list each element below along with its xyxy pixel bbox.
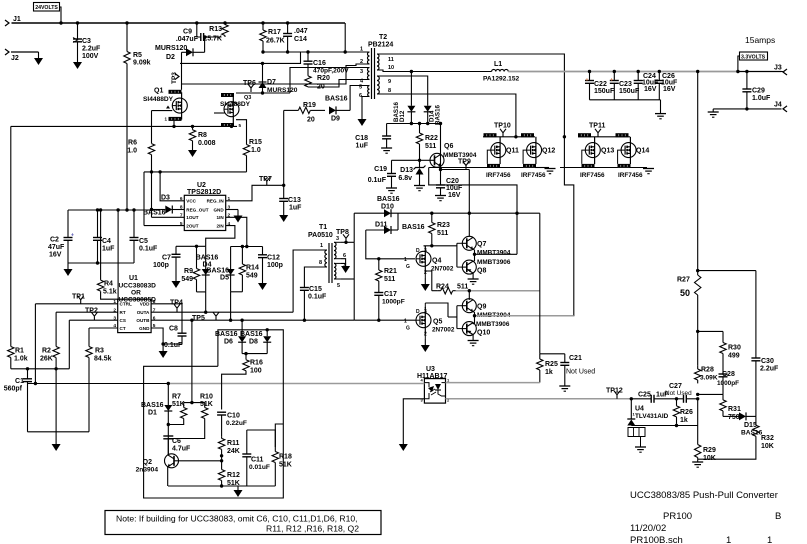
svg-text:Q7: Q7 <box>477 241 486 248</box>
svg-text:1uF: 1uF <box>289 205 302 212</box>
ground Q14 source <box>643 169 654 174</box>
resistor R20 <box>305 75 330 91</box>
wire Q9/Q10 emitter junction <box>473 311 574 324</box>
wire pin11 to Q13/Q14 drain <box>385 54 564 137</box>
transistor Q9 MMBT3904 <box>462 299 511 319</box>
wire C12 net <box>231 245 263 248</box>
svg-text:R13: R13 <box>209 26 222 33</box>
resistor R2 <box>40 312 59 362</box>
wire CS drop <box>68 320 70 369</box>
svg-text:47uF: 47uF <box>48 244 65 251</box>
diode D5 BAS16 <box>206 247 234 292</box>
wire U2 2OUT <box>144 225 184 227</box>
wire rail drop to R27 <box>697 72 699 271</box>
capacitor C13 <box>279 184 302 212</box>
wire D2 node <box>203 35 206 52</box>
svg-text:5.1k: 5.1k <box>103 289 117 296</box>
wire D10 col drop <box>353 213 355 320</box>
ground left bus <box>52 432 61 451</box>
svg-text:R32: R32 <box>761 435 774 442</box>
svg-text:51K: 51K <box>279 462 292 469</box>
svg-text:D2: D2 <box>166 54 175 61</box>
svg-text:R6: R6 <box>128 140 137 147</box>
svg-text:J3: J3 <box>774 65 782 72</box>
transistor Q8 MMBT3906 <box>462 259 511 275</box>
svg-text:R10: R10 <box>200 394 213 401</box>
svg-text:51K: 51K <box>172 401 185 408</box>
svg-text:C10: C10 <box>227 413 240 420</box>
svg-text:C9: C9 <box>183 29 192 36</box>
svg-text:L1: L1 <box>494 61 502 68</box>
wire VDD drop to U1 <box>117 210 119 299</box>
capacitor C9 <box>176 29 222 44</box>
svg-text:1000pF: 1000pF <box>717 380 739 387</box>
testpoint TP7 <box>259 176 272 185</box>
svg-text:150uF: 150uF <box>594 88 615 95</box>
svg-text:D6: D6 <box>224 339 233 346</box>
svg-text:C6: C6 <box>172 438 181 445</box>
wire U1 GND pin5 <box>151 328 165 346</box>
wire U2 1OUT <box>152 216 185 218</box>
svg-text:BAS16: BAS16 <box>377 196 400 203</box>
resistor R4 <box>97 208 118 302</box>
wire ring top <box>144 330 284 498</box>
wire R2 bottom ground bus <box>28 358 90 432</box>
capacitor C10 <box>217 412 247 437</box>
diode D8 BAS16 <box>240 328 271 354</box>
capacitor C20 <box>436 178 463 199</box>
svg-text:1: 1 <box>228 196 231 202</box>
svg-text:R27: R27 <box>677 277 690 284</box>
connector J1 <box>5 16 21 26</box>
node 24VOLTS flag <box>34 3 62 24</box>
svg-text:U1: U1 <box>129 275 138 282</box>
svg-text:R18: R18 <box>279 454 292 461</box>
svg-text:C11: C11 <box>251 457 264 464</box>
capacitor C12 <box>258 247 283 278</box>
svg-text:J1: J1 <box>13 16 21 23</box>
ground U1 <box>159 345 168 358</box>
svg-text:R24: R24 <box>436 284 449 291</box>
svg-text:C29: C29 <box>752 88 765 95</box>
svg-text:RT: RT <box>120 310 126 315</box>
wire Q13-Q14 drain row <box>563 135 630 138</box>
wire Q10 collector ground <box>468 335 479 346</box>
wire snubber2 bottom <box>261 41 301 54</box>
svg-text:C12: C12 <box>267 255 280 262</box>
svg-text:PB2124: PB2124 <box>368 42 393 49</box>
svg-text:G: G <box>406 326 410 332</box>
svg-text:D: D <box>416 309 420 315</box>
diode D13 zener 6.8v <box>398 160 425 185</box>
svg-text:1: 1 <box>726 535 731 544</box>
ground R29 <box>692 459 703 467</box>
resistor R13 <box>203 23 228 43</box>
svg-text:Q1: Q1 <box>154 88 163 95</box>
wire Q8 collector ground <box>468 273 479 284</box>
svg-text:1.0uF: 1.0uF <box>752 95 771 102</box>
ground opto <box>399 438 408 451</box>
transistor Q10 MMBT3906 <box>462 321 510 337</box>
resistor R31 <box>720 394 741 421</box>
ground J2 <box>34 52 43 65</box>
svg-text:10uF: 10uF <box>446 185 463 192</box>
wire T2 pin6 ground <box>362 97 370 114</box>
resistor R23 <box>429 213 450 237</box>
wire D5/R14 bottom <box>231 276 243 321</box>
transistor Q12 IRF7456 <box>521 133 555 179</box>
resistor R5 <box>124 23 151 67</box>
wire Q1 drain <box>181 52 183 90</box>
ground C18 <box>381 148 392 153</box>
svg-text:CT: CT <box>120 326 126 331</box>
wire 1OUT column <box>151 111 153 218</box>
svg-text:C16: C16 <box>313 60 326 67</box>
svg-text:R16: R16 <box>250 360 263 367</box>
svg-text:470pF,200V: 470pF,200V <box>313 68 349 75</box>
wire Q7/Q8 emitter junction <box>473 249 517 262</box>
svg-text:150uF: 150uF <box>619 88 640 95</box>
svg-text:0.1uF: 0.1uF <box>139 246 158 253</box>
resistor R1 <box>8 126 28 362</box>
wire Q11-Q12 drain row <box>483 135 535 138</box>
svg-text:D13: D13 <box>400 167 413 174</box>
diode D9 BAS16 <box>325 96 350 123</box>
svg-text:T2: T2 <box>379 34 387 41</box>
svg-text:TLV431AID: TLV431AID <box>635 413 669 420</box>
transistor Q6 MMBT3904 <box>430 143 477 167</box>
diode D11 BAS16 <box>366 222 425 235</box>
ground C7 <box>172 275 181 288</box>
svg-text:24VOLTS: 24VOLTS <box>35 5 58 11</box>
wire R23 bottom / base bus <box>424 235 457 248</box>
resistor R30 <box>720 339 741 360</box>
wire R20 to T2 pin4 <box>308 80 362 88</box>
svg-text:CS: CS <box>120 318 126 323</box>
wire T1 pin3 to D10 row <box>341 241 354 244</box>
wire U1 pin4 CT <box>89 327 118 329</box>
svg-text:IRF7456: IRF7456 <box>580 172 605 179</box>
testpoint TP6 <box>243 80 256 101</box>
capacitor C19 <box>368 160 420 188</box>
svg-text:2n3904: 2n3904 <box>136 467 159 474</box>
svg-text:Not Used: Not Used <box>665 390 692 397</box>
svg-text:511: 511 <box>425 143 436 150</box>
svg-text:0.01uF: 0.01uF <box>249 464 270 471</box>
svg-text:PR100: PR100 <box>663 511 692 522</box>
svg-text:2.2uF: 2.2uF <box>82 46 101 53</box>
ground output caps <box>655 114 666 119</box>
testpoint TP3 <box>171 72 179 84</box>
ground U2 <box>234 210 243 223</box>
svg-text:R17: R17 <box>268 29 281 36</box>
wire D6/D8 bottoms <box>242 352 267 355</box>
svg-text:100p: 100p <box>153 262 169 269</box>
svg-text:C13: C13 <box>288 197 301 204</box>
svg-text:C5: C5 <box>139 238 148 245</box>
svg-text:10: 10 <box>388 65 394 71</box>
wire J1 24V rail <box>12 21 346 24</box>
wire drive rail to T2 pin1 <box>302 23 347 54</box>
wire Q9 collector <box>468 289 471 300</box>
capacitor C17 <box>374 283 404 320</box>
svg-text:OUTA: OUTA <box>137 310 150 315</box>
capacitor C26 <box>655 72 678 100</box>
shunt regulator U4 TLV431AID <box>627 399 668 447</box>
svg-text:D11: D11 <box>375 222 388 229</box>
svg-text:3: 3 <box>424 248 427 254</box>
svg-text:499: 499 <box>728 353 740 360</box>
wire D9 to T2 pin5 <box>350 86 362 111</box>
wire R27 branch <box>696 269 756 272</box>
capacitor C2 <box>48 210 74 263</box>
resistor R18 <box>272 424 292 469</box>
testpoint TP2 <box>85 308 98 321</box>
svg-text:C21: C21 <box>569 355 582 362</box>
svg-text:C23: C23 <box>619 81 632 88</box>
svg-text:BAS16: BAS16 <box>402 224 425 231</box>
svg-text:3: 3 <box>424 309 427 315</box>
wire T1 pin6/4 ground <box>341 259 350 273</box>
svg-text:C18: C18 <box>355 135 368 142</box>
svg-text:B: B <box>775 511 781 522</box>
svg-text:TP5: TP5 <box>192 315 205 322</box>
capacitor C5 <box>130 210 159 263</box>
svg-text:C25: C25 <box>638 392 651 399</box>
resistor R15 <box>243 139 262 156</box>
resistor R6 <box>127 140 154 155</box>
svg-text:Q14: Q14 <box>636 148 649 155</box>
svg-text:0.1uF: 0.1uF <box>164 342 183 349</box>
svg-text:IRF7456: IRF7456 <box>618 172 643 179</box>
svg-text:C2: C2 <box>50 237 59 244</box>
svg-text:24K: 24K <box>227 448 240 455</box>
resistor R22 <box>416 124 438 151</box>
capacitor C4 <box>93 210 115 263</box>
wire T1 pin1 OUTA <box>293 250 320 312</box>
svg-text:1k: 1k <box>680 417 688 424</box>
wire D2-C16 upper net <box>180 52 301 65</box>
capacitor C18 <box>355 124 391 150</box>
resistor R32 <box>753 416 774 450</box>
node 3.3VOLTS flag <box>738 52 768 72</box>
capacitor C29 <box>742 72 771 109</box>
wire U1 pin3 CS <box>69 319 117 321</box>
svg-text:TP8: TP8 <box>336 229 349 236</box>
svg-text:MMBT3906: MMBT3906 <box>476 321 510 328</box>
resistor R26 <box>673 399 693 424</box>
svg-text:R22: R22 <box>425 135 438 142</box>
wire Q3 drain row <box>236 68 362 95</box>
svg-text:C15: C15 <box>309 286 322 293</box>
svg-text:REG_OUT: REG_OUT <box>186 207 208 212</box>
wire gray feedback left black part <box>28 382 171 385</box>
wire output cap bottoms <box>590 100 661 114</box>
wire sync gate loop right <box>564 137 573 316</box>
ground C3 <box>73 56 82 69</box>
svg-text:PA1292.152: PA1292.152 <box>483 76 520 83</box>
svg-text:Q11: Q11 <box>506 148 519 155</box>
wire Q6 collector column <box>439 122 442 185</box>
ground Q5 <box>421 339 430 352</box>
resistor R7 <box>172 394 187 420</box>
svg-text:100: 100 <box>250 368 262 375</box>
svg-text:C4: C4 <box>102 238 111 245</box>
svg-text:511: 511 <box>457 284 468 291</box>
capacitor C24 <box>634 72 659 100</box>
diode D15 BAS16 <box>723 412 763 436</box>
svg-text:BAS16: BAS16 <box>393 101 400 122</box>
svg-text:Q2: Q2 <box>143 459 152 466</box>
wire opto pin4 gray <box>168 383 424 385</box>
svg-text:1.0k: 1.0k <box>14 356 28 363</box>
wire T2 pin2 to Q1 drain net <box>182 64 363 84</box>
wire U2 1IN net <box>226 217 247 246</box>
resistor R14 <box>239 247 259 280</box>
svg-text:C30: C30 <box>761 358 774 365</box>
resistor R16 <box>243 354 263 375</box>
ground C19 <box>386 188 397 193</box>
svg-text:TP10: TP10 <box>494 123 511 130</box>
capacitor C15 <box>300 286 327 320</box>
svg-text:15amps: 15amps <box>745 35 775 45</box>
capacitor C23 <box>610 72 640 100</box>
svg-text:8: 8 <box>319 260 322 266</box>
ground C29 <box>708 109 719 117</box>
svg-text:R31: R31 <box>728 406 741 413</box>
transistor Q4 2N7002 <box>404 246 454 279</box>
diode D4 BAS16 <box>196 246 219 292</box>
transistor Q11 IRF7456 <box>484 133 519 179</box>
svg-text:Q9: Q9 <box>477 304 486 311</box>
svg-text:9.09k: 9.09k <box>133 60 151 67</box>
svg-text:D: D <box>416 248 420 254</box>
diode D1 BAS16 <box>141 384 172 435</box>
svg-text:549: 549 <box>246 273 258 280</box>
svg-text:R9: R9 <box>184 268 193 275</box>
svg-text:VCC: VCC <box>186 199 196 204</box>
wire pin1 to gray net <box>34 304 36 384</box>
wire pin8 to Q11/Q12 drain <box>385 94 516 137</box>
svg-text:750: 750 <box>728 414 740 421</box>
svg-text:R7: R7 <box>172 394 181 401</box>
svg-text:16V: 16V <box>663 86 676 93</box>
wire U2 2IN net <box>206 226 235 247</box>
svg-text:R15: R15 <box>249 139 262 146</box>
svg-text:R8: R8 <box>198 132 207 139</box>
svg-text:R14: R14 <box>246 265 259 272</box>
svg-text:1OUT: 1OUT <box>186 215 198 220</box>
svg-text:T1: T1 <box>319 224 327 231</box>
svg-text:C3: C3 <box>82 38 91 45</box>
wire R27-R28 <box>696 296 699 400</box>
svg-text:BAS16: BAS16 <box>141 402 164 409</box>
svg-text:.047uF: .047uF <box>176 36 199 43</box>
svg-text:+: + <box>71 233 74 239</box>
wire Q7/Q8 base bus <box>457 243 463 267</box>
svg-text:511: 511 <box>437 230 448 237</box>
wire C7 net <box>176 245 206 248</box>
resistor R3 <box>86 328 112 363</box>
svg-text:D9: D9 <box>331 116 340 123</box>
svg-text:4.7uF: 4.7uF <box>172 446 191 453</box>
svg-text:2N7002: 2N7002 <box>431 266 454 273</box>
svg-text:R30: R30 <box>728 345 741 352</box>
svg-text:CTRL: CTRL <box>120 302 132 307</box>
svg-text:Q13: Q13 <box>601 148 614 155</box>
svg-text:16V: 16V <box>644 86 657 93</box>
svg-text:C19: C19 <box>374 166 387 173</box>
svg-text:U3: U3 <box>426 366 435 373</box>
svg-text:SI4488DY: SI4488DY <box>220 101 251 108</box>
svg-text:IRF7456: IRF7456 <box>486 172 511 179</box>
svg-text:100V: 100V <box>82 53 99 60</box>
ground D13 <box>414 186 425 191</box>
svg-text:1: 1 <box>404 257 407 263</box>
diode D2 MURS120 <box>155 45 205 61</box>
svg-text:560pf: 560pf <box>4 386 23 393</box>
ground R8 <box>188 144 197 157</box>
svg-text:.047: .047 <box>294 28 308 35</box>
wire T2 pin1 entry <box>345 51 369 53</box>
svg-text:VDD: VDD <box>140 302 150 307</box>
ground T2 pin6 <box>358 113 367 126</box>
wire opto pin1 gray <box>446 382 540 384</box>
capacitor C14 <box>283 23 308 52</box>
svg-text:C14: C14 <box>294 36 307 43</box>
title text <box>630 490 781 544</box>
svg-text:TP4: TP4 <box>170 300 183 307</box>
svg-text:U4: U4 <box>635 406 644 413</box>
testpoint TP8 <box>336 229 349 242</box>
svg-text:511: 511 <box>384 276 395 283</box>
transformer T2 PB2124 <box>359 34 394 99</box>
svg-text:1k: 1k <box>545 369 553 376</box>
IC U1 UCC38083D <box>113 275 156 333</box>
ground Q12 source <box>545 169 556 174</box>
resistor R8 <box>189 126 215 147</box>
diode D3 BAS16 <box>143 195 184 217</box>
svg-text:26K: 26K <box>40 356 53 363</box>
wire R25 top column <box>539 213 541 354</box>
svg-text:51K: 51K <box>200 401 213 408</box>
wire U1 pin2 RT <box>56 311 118 313</box>
svg-text:1.0: 1.0 <box>251 147 261 154</box>
wire U1 pin1 CTRL <box>35 303 117 305</box>
svg-text:MURS120: MURS120 <box>155 45 187 52</box>
svg-text:Q10: Q10 <box>477 330 490 337</box>
svg-text:PR100B.sch: PR100B.sch <box>630 535 683 544</box>
svg-text:0.1uF: 0.1uF <box>308 294 327 301</box>
wire R30 branch <box>698 331 723 339</box>
resistor R29 <box>695 399 716 462</box>
svg-text:Q4: Q4 <box>432 258 441 265</box>
wire Q11/Q12 source row <box>429 167 549 169</box>
wire U1 VDD to C8 <box>151 304 182 333</box>
svg-text:0.22uF: 0.22uF <box>226 420 247 427</box>
svg-text:OUTB: OUTB <box>136 318 150 323</box>
capacitor C22 <box>585 72 615 100</box>
svg-text:2N7002: 2N7002 <box>432 327 455 334</box>
wire D3 anode <box>150 208 160 211</box>
wire Q7 collector <box>468 170 470 237</box>
svg-text:1: 1 <box>404 319 407 325</box>
testpoint TP11 <box>589 123 605 137</box>
svg-text:G: G <box>406 264 410 270</box>
svg-text:1IN: 1IN <box>217 215 225 220</box>
capacitor C16 <box>304 50 350 76</box>
wire R18/C11/R12 bottoms <box>168 467 275 488</box>
